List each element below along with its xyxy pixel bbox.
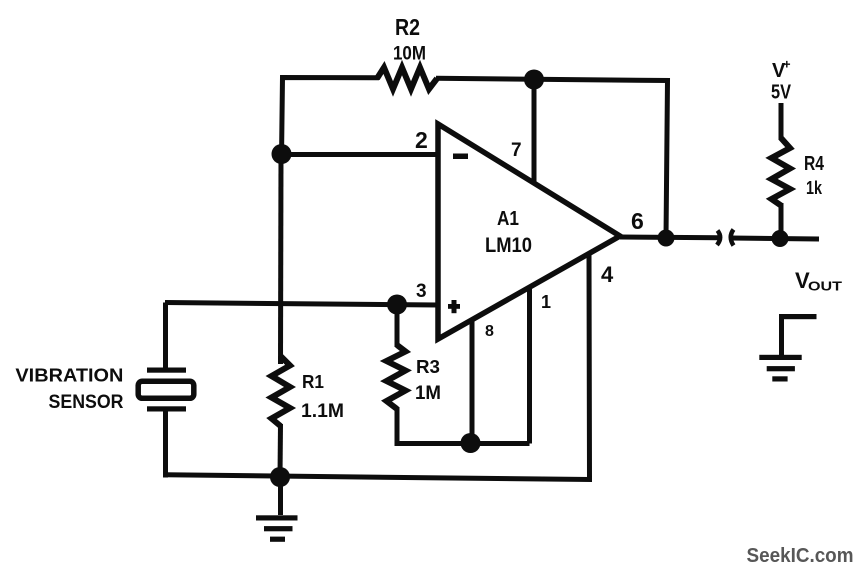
wire R1 bottom to ground node [278,424,284,477]
vibration sensor top plate [147,368,186,373]
svg-text:+: + [783,57,791,72]
wire R3 bottom rail to pin1 corner [397,407,530,444]
svg-text:3: 3 [416,281,427,302]
vibration sensor stems [163,303,168,369]
ground (output reference) [779,314,817,319]
op-amp minus sign [453,154,468,160]
wire pin 8 [470,320,475,444]
wire output (apex to break) [620,235,720,241]
wire pin 2 [281,152,438,157]
svg-text:R3: R3 [416,357,440,377]
svg-text:4: 4 [601,262,614,287]
svg-text:SeekIC.com: SeekIC.com [747,544,854,567]
wire R4 bottom to output node [779,203,784,238]
junction pin2 node [272,144,292,164]
op-amp A1 triangle [438,124,620,339]
junction pin8 node [461,433,481,453]
junction ground node [270,467,290,487]
wire R1 branch upper (pin2 node down to R1 top) [278,154,284,364]
svg-text:10M: 10M [393,44,426,65]
svg-text:R1: R1 [302,372,324,392]
wire pin 4 and bottom rail [166,254,590,480]
vibration sensor crystal body [138,381,194,398]
svg-text:OUT: OUT [808,279,842,294]
junction pin7/R2 node [524,70,544,90]
svg-text:R4: R4 [804,153,825,175]
svg-text:SENSOR: SENSOR [49,392,124,413]
wire R3 top branch [395,305,400,348]
svg-text:A1: A1 [497,208,519,230]
svg-text:LM10: LM10 [485,234,532,257]
wire V+ down to R4 [779,103,784,140]
wire pin 1 [527,288,532,444]
vibration sensor bottom plate [147,406,186,411]
junction output node [658,230,675,247]
svg-text:VIBRATION: VIBRATION [15,366,123,386]
resistor R2 zigzag [377,68,437,90]
svg-text:1.1M: 1.1M [301,401,344,422]
svg-text:8: 8 [485,323,494,340]
resistor R3 zigzag [387,345,406,409]
wire R2 right terminal to right vertical down to output node [436,78,668,238]
svg-text:2: 2 [415,127,428,153]
op-amp plus sign [448,304,460,309]
wire break symbol [717,231,720,246]
resistor R1 zigzag [272,356,291,426]
resistor R4 zigzag [772,138,791,206]
junction pin3/R3 node [387,295,407,315]
wire pin 3 [165,303,438,306]
wire pin2-node up-left to R2 left terminal [282,78,380,159]
wire pin 7 [532,79,537,184]
svg-text:7: 7 [511,140,522,161]
svg-text:6: 6 [631,208,644,234]
svg-text:R2: R2 [395,14,420,40]
ground (main) [278,477,283,515]
wire output (break to right end) [731,238,820,239]
svg-text:5V: 5V [771,82,792,104]
svg-text:1k: 1k [806,178,823,198]
svg-text:1: 1 [541,292,551,312]
junction R4/output node [772,230,789,247]
svg-text:1M: 1M [415,383,441,404]
